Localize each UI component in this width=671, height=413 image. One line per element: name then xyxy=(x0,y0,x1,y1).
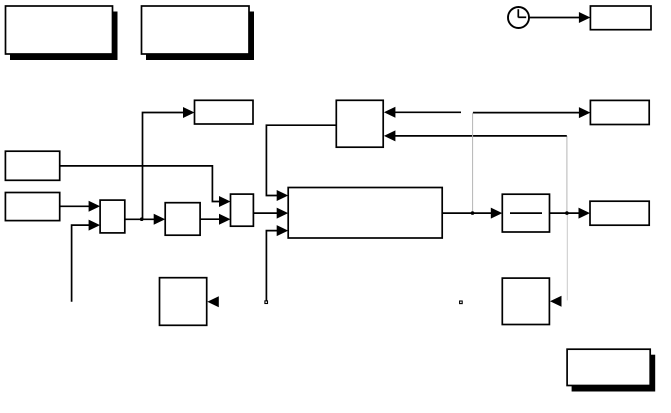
wire B10 to B11 xyxy=(125,218,159,220)
subsystem block B1 (top-left, drop shadow) xyxy=(6,6,118,60)
arrow into B12 input 2 xyxy=(219,214,231,225)
junction dot J1 xyxy=(471,211,475,215)
clock source U1 xyxy=(508,7,529,28)
arrow into B11 xyxy=(154,214,166,225)
block B16 (square, flipped, lower left-middle) xyxy=(160,278,207,326)
block B14 (transfer function) xyxy=(502,194,549,232)
wire into B6 input 2 from net at x=567 xyxy=(394,135,567,137)
open line-end marker M1 xyxy=(265,301,268,304)
block B5 (small rect upper middle-left) xyxy=(195,100,254,124)
dangling wire into B13 input 3 xyxy=(266,231,282,301)
arrow into B13 input 2 xyxy=(277,208,289,219)
arrow into B13 input 1 xyxy=(277,190,289,201)
block B9 (left input rect 2) xyxy=(5,193,59,221)
arrow into B14 xyxy=(491,208,503,219)
block B13 (large center rect) xyxy=(288,188,442,239)
wire B12 to B13 input 2 xyxy=(253,212,282,214)
block B10 (small sum block) xyxy=(100,200,125,233)
wire B13 to B14 xyxy=(442,212,496,214)
arrow into B12 input 1 xyxy=(219,196,231,207)
block B6 (square, flipped inputs on right) xyxy=(336,100,383,147)
arrow into B10 input 2 xyxy=(89,220,101,231)
subsystem block B18 (bottom-right, drop shadow) xyxy=(567,349,655,391)
subsystem block B2 (top, drop shadow) xyxy=(142,6,255,60)
dangling wire into B10 input 2 xyxy=(72,225,94,302)
arrow into B17 (right side) xyxy=(550,296,562,307)
wire B11 to B12 input 2 xyxy=(200,218,224,220)
arrow into B4 xyxy=(579,12,591,23)
dangling wire into B6 input 1 xyxy=(394,111,461,113)
gray riser from junction J1 xyxy=(472,113,474,214)
gray dropper net from junction J2 down xyxy=(566,213,568,300)
junction dot J2 xyxy=(565,211,569,215)
arrow into B6 input 1 xyxy=(384,107,396,118)
block B8 (left input rect 1) xyxy=(5,151,59,180)
wire B8 to B12 input 1 xyxy=(60,166,224,202)
arrow into B16 (right side) xyxy=(207,296,219,307)
block B15 (right rect) xyxy=(590,201,649,225)
wire B6 output to B13 input 1 xyxy=(266,125,336,195)
wire branch to B5 xyxy=(143,113,189,220)
wire B9 to B10 input 1 xyxy=(60,205,94,207)
block B12 (small mux) xyxy=(231,194,254,226)
gray riser net from junction J2 up to B6 input2 wire xyxy=(566,136,568,213)
junction dot J3 xyxy=(140,217,144,221)
open line-end marker M2 xyxy=(460,301,463,304)
arrow into B6 input 2 xyxy=(384,130,396,141)
block B11 xyxy=(165,203,200,236)
wire B14 to B15 xyxy=(550,212,585,214)
block B7 (rect, right upper) xyxy=(590,100,649,124)
arrow into B13 input 3 xyxy=(277,225,289,236)
arrow into B10 input 1 xyxy=(89,201,101,212)
arrow into B5 xyxy=(183,107,195,118)
wire from node J1 up to B7 xyxy=(473,112,584,114)
block B17 (square, flipped, lower right) xyxy=(502,278,549,324)
arrow into B15 xyxy=(579,208,591,219)
block B4 (to-workspace, top right) xyxy=(590,6,651,30)
wire clock to B4 xyxy=(530,17,585,19)
arrow into B7 xyxy=(579,107,591,118)
